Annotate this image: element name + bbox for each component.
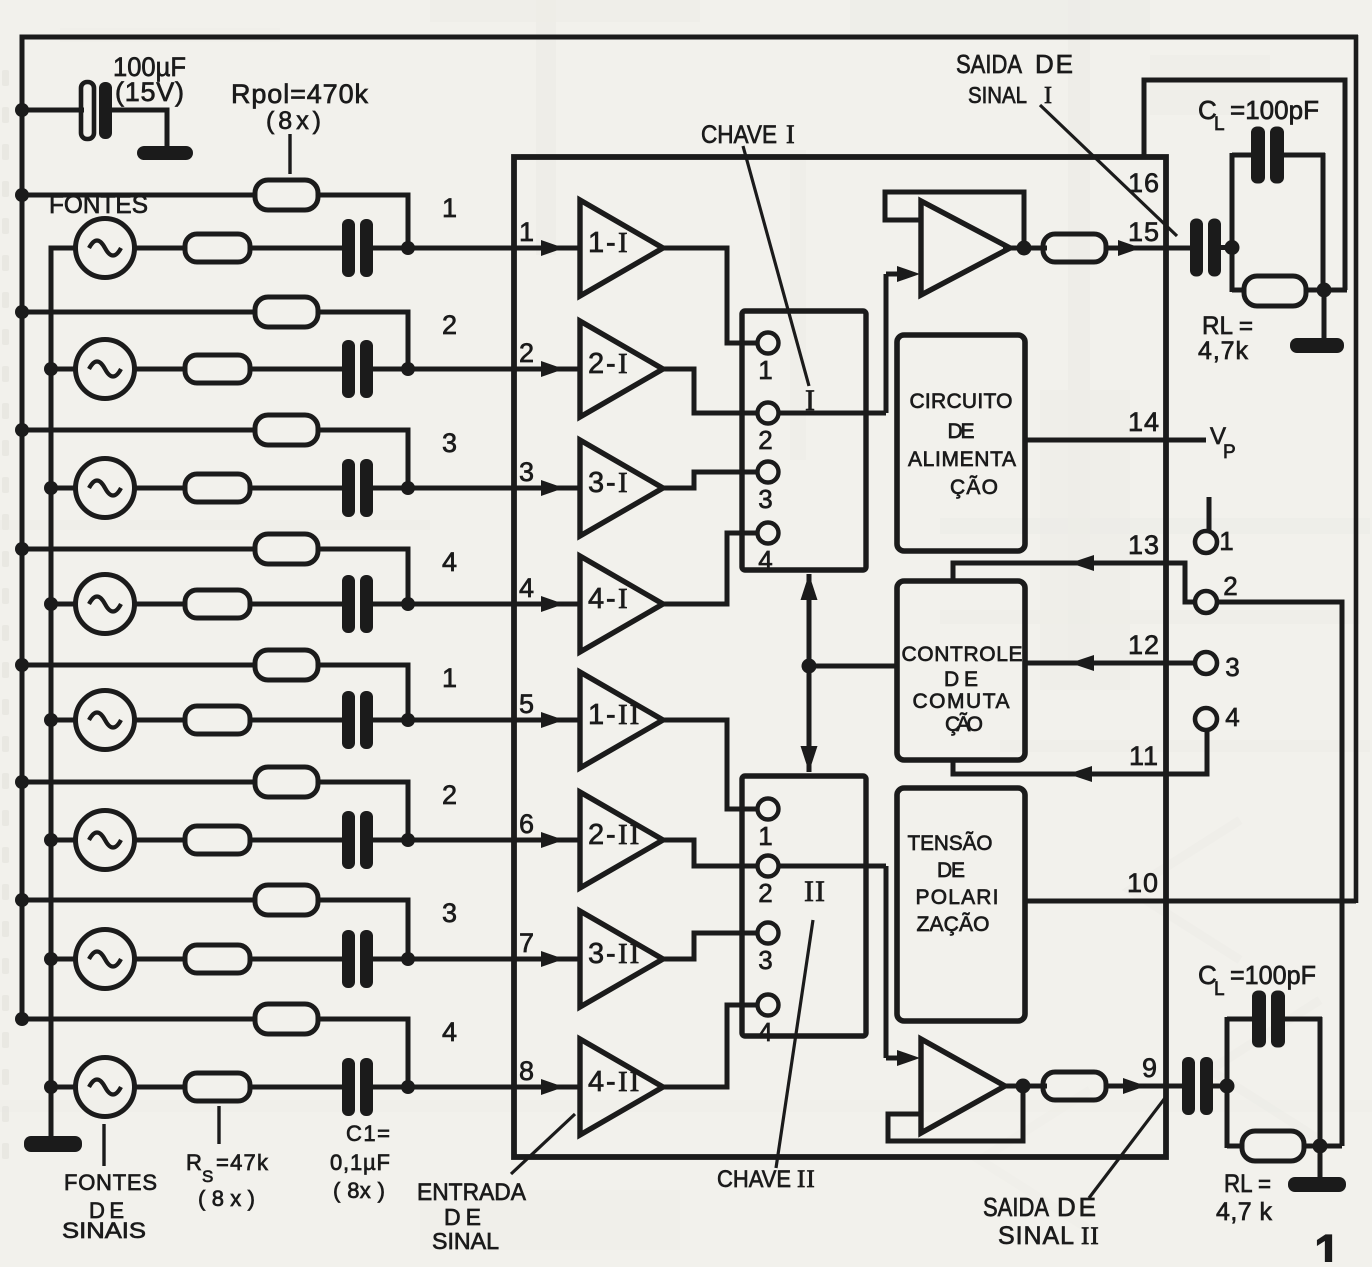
- svg-text:3: 3: [588, 467, 604, 499]
- label channel number 4: [442, 547, 458, 577]
- resistor Rs3 47k: [185, 474, 250, 502]
- label IC pin number 1: [519, 217, 535, 247]
- op-amp 4-II: [580, 1039, 663, 1135]
- switch I contact 3 circle: [758, 462, 779, 483]
- wire Rs6 to C1-6: [250, 838, 343, 843]
- svg-text:II: II: [618, 819, 641, 851]
- wire cap II to load node: [1213, 1084, 1231, 1089]
- svg-text:1: 1: [588, 699, 604, 731]
- switch I contact 1 circle: [758, 333, 779, 354]
- source G3 (AC signal source): [76, 459, 135, 518]
- source G6 (AC signal source): [76, 811, 135, 870]
- pointer FONTES DE SINAIS: [102, 1124, 105, 1166]
- wire C1-6 to IC pin 6: [373, 838, 582, 843]
- label C1=: [346, 1121, 390, 1146]
- label POLARI: [916, 886, 999, 909]
- source G1 (AC signal source): [76, 219, 135, 278]
- svg-text:-: -: [606, 583, 616, 615]
- label SAIDA DE (II): [983, 1192, 1096, 1222]
- label RL I: [1202, 312, 1253, 340]
- junction output II node: [1220, 1079, 1235, 1094]
- junction bus/source G4: [44, 597, 58, 611]
- pointer Rs label: [217, 1106, 220, 1144]
- capacitor CL II 100pF: [1252, 991, 1285, 1048]
- label figure number 1: [1314, 1226, 1341, 1267]
- label pin 16: [1128, 168, 1160, 198]
- wire load I bottom left: [1232, 288, 1246, 293]
- label channel number 2: [442, 780, 458, 810]
- svg-text:CONTROLE: CONTROLE: [902, 643, 1023, 666]
- wire Rpol4 to input node 4: [318, 549, 408, 604]
- label SINAL II: [998, 1222, 1100, 1250]
- svg-text:5: 5: [519, 689, 535, 719]
- wire amp 4-I output to switch I contact 4: [663, 533, 757, 604]
- junction V+ rail / Rpol6: [15, 775, 29, 789]
- svg-text:CHAVE: CHAVE: [717, 1166, 791, 1193]
- resistor RL II 4.7k: [1242, 1131, 1304, 1161]
- arrowhead into amp 3-II: [541, 951, 564, 967]
- label IC pin number 2: [519, 338, 535, 368]
- wire load II bottom left: [1227, 1144, 1244, 1149]
- svg-text:SINAL: SINAL: [432, 1228, 499, 1254]
- pointer ENTRADA DE SINAL: [511, 1114, 575, 1174]
- svg-text:2: 2: [588, 819, 604, 851]
- wire V+ rail to Rpol4: [22, 547, 256, 552]
- switch II contact 1 circle: [758, 799, 779, 820]
- svg-text:12: 12: [1128, 630, 1160, 660]
- label pin 15: [1128, 217, 1160, 247]
- pointer CHAVE I to switch I: [743, 146, 809, 386]
- label IC pin number 6: [519, 809, 535, 839]
- junction bus/source G8: [44, 1080, 58, 1094]
- op-amp 1-II: [580, 672, 663, 768]
- junction input node 3: [401, 481, 415, 495]
- junction bus/source G7: [44, 952, 58, 966]
- resistor Rs8 47k: [185, 1073, 250, 1101]
- capacitor C1-4 0.1uF: [342, 575, 373, 633]
- resistor Rpol3 470k: [255, 415, 318, 445]
- label external contact 2: [1223, 571, 1238, 601]
- label CL II: [1198, 960, 1316, 1000]
- label pin 11: [1129, 741, 1159, 771]
- label C1 (8x): [333, 1178, 385, 1203]
- label IC pin number 3: [519, 457, 535, 487]
- resistor buffer I output: [1043, 234, 1106, 262]
- pointer CHAVE II to switch II: [776, 920, 813, 1168]
- wire C1-4 to IC pin 4: [373, 602, 582, 607]
- svg-text:10: 10: [1127, 868, 1159, 898]
- svg-text:2: 2: [442, 780, 458, 810]
- svg-text:7: 7: [519, 928, 535, 958]
- svg-text:SAIDA: SAIDA: [956, 49, 1023, 79]
- svg-text:I: I: [786, 120, 795, 149]
- capacitor output coupling I: [1190, 219, 1221, 277]
- wire Rpol6 to input node 6: [318, 782, 408, 840]
- arrowhead pin 11 into IC: [1068, 766, 1092, 782]
- wire load II left leg: [1225, 1017, 1230, 1148]
- label external contact 3: [1225, 652, 1240, 682]
- svg-text:-: -: [606, 699, 616, 731]
- junction output I node: [1225, 240, 1240, 255]
- svg-text:-: -: [606, 467, 616, 499]
- junction input node 2: [401, 362, 415, 376]
- wire switch control bus: [807, 574, 812, 772]
- svg-text:RL =: RL =: [1224, 1170, 1271, 1198]
- svg-text:SINAIS: SINAIS: [62, 1218, 146, 1243]
- svg-text:2: 2: [588, 348, 604, 380]
- label SINAIS: [62, 1218, 146, 1243]
- svg-text:4: 4: [519, 573, 535, 603]
- svg-text:SINAL: SINAL: [998, 1222, 1074, 1250]
- arrowhead up into switch I: [801, 574, 818, 600]
- junction input node 6: [401, 833, 415, 847]
- resistor Rs2 47k: [185, 355, 250, 383]
- label channel number 3: [442, 428, 458, 458]
- wire pin 16 bootstrap loop: [1144, 80, 1345, 290]
- external contact 2 circle: [1195, 591, 1217, 613]
- switch II contact 4 circle: [758, 995, 779, 1016]
- label pin 14: [1128, 407, 1160, 437]
- svg-text:13: 13: [1128, 530, 1160, 560]
- label TENSAO: [908, 831, 993, 855]
- label C2 voltage (15V): [115, 77, 184, 107]
- wire C1-2 to IC pin 2: [373, 367, 582, 372]
- switch I contact 2 circle: [758, 403, 779, 424]
- svg-text:POLARI: POLARI: [916, 886, 999, 909]
- wire CL I to right leg: [1282, 153, 1325, 158]
- wire switch I common output: [779, 411, 887, 416]
- resistor Rs7 47k: [185, 945, 250, 973]
- wire amp 1-II output to switch II contact 1: [663, 720, 757, 809]
- label switch II contact number 1: [758, 821, 773, 851]
- arrowhead into buffer II: [886, 1050, 920, 1066]
- label C1 value 0,1uF: [330, 1150, 390, 1175]
- capacitor output coupling II: [1182, 1057, 1213, 1115]
- ground bus segment ch4: [49, 604, 54, 720]
- external contact 1 stem: [1207, 497, 1212, 531]
- wire G1 to Rs1: [134, 246, 186, 251]
- wire switch II common output: [779, 864, 887, 869]
- source G2 (AC signal source): [76, 340, 135, 399]
- svg-text:SAIDA: SAIDA: [983, 1192, 1050, 1222]
- label IC pin number 8: [519, 1056, 535, 1086]
- junction buffer I output node: [1017, 241, 1032, 256]
- label I inside switch I: [805, 384, 815, 417]
- svg-text:(15V): (15V): [115, 77, 184, 107]
- ground bus segment ch3: [49, 488, 54, 604]
- svg-text:9: 9: [1142, 1053, 1158, 1083]
- svg-text:4: 4: [442, 547, 458, 577]
- svg-text:-: -: [606, 819, 616, 851]
- ground for signal sources bus: [24, 1136, 82, 1152]
- svg-text:=100pF: =100pF: [1230, 960, 1316, 990]
- arrowhead into amp 4-I: [541, 596, 564, 612]
- svg-text:( 8x ): ( 8x ): [333, 1178, 385, 1203]
- label RL I value: [1198, 337, 1249, 365]
- pointer Rpol label to R1: [288, 134, 291, 174]
- capacitor C1-5 0.1uF: [342, 691, 373, 749]
- wire load II top to CL II: [1227, 1017, 1254, 1022]
- wire Rs7 to C1-7: [250, 957, 343, 962]
- label C2 value 100uF: [113, 52, 186, 82]
- label channel number 2: [442, 310, 458, 340]
- svg-text:4: 4: [758, 1017, 773, 1047]
- resistor Rpol4 470k: [255, 534, 318, 564]
- wire bus to source G8: [51, 1085, 78, 1090]
- external contact 4 circle: [1195, 708, 1217, 730]
- IC package outline (16-pin switch IC): [514, 157, 1166, 1157]
- label CAO (alimentacao): [950, 475, 998, 499]
- wire V+ rail to Rpol8: [22, 1017, 256, 1022]
- label Rpol (8x): [266, 107, 321, 135]
- svg-text:FONTES: FONTES: [64, 1170, 157, 1195]
- resistor buffer II output: [1043, 1072, 1106, 1100]
- ground for output I: [1290, 338, 1344, 353]
- wire G5 to Rs5: [134, 718, 186, 723]
- svg-text:6: 6: [519, 809, 535, 839]
- wire V+ rail to Rpol7: [22, 898, 256, 903]
- svg-text:2: 2: [758, 878, 773, 908]
- svg-text:1: 1: [519, 217, 535, 247]
- svg-text:4,7k: 4,7k: [1198, 337, 1249, 365]
- capacitor C1-1 0.1uF: [342, 219, 373, 277]
- wire rail to C2: [22, 108, 84, 113]
- wire cap I to load node: [1221, 245, 1236, 250]
- svg-text:3: 3: [588, 938, 604, 970]
- wire external contact 2 to output II load: [1217, 602, 1342, 1146]
- label FONTES: [49, 191, 148, 219]
- wire bus to source G4: [51, 602, 78, 607]
- block CONTROLE DE COMUTACAO: [897, 581, 1025, 760]
- junction load II ground node: [1313, 1139, 1328, 1154]
- wire load I left leg: [1230, 153, 1235, 292]
- capacitor C1-2 0.1uF: [342, 340, 373, 398]
- source G4 (AC signal source): [76, 575, 135, 634]
- wire amp 3-I output to switch I contact 3: [663, 472, 757, 488]
- ground for C2: [137, 146, 193, 160]
- svg-text:P: P: [1223, 442, 1237, 463]
- junction bus/source G6: [44, 833, 58, 847]
- label FONTES (bottom): [64, 1170, 157, 1195]
- junction bus/source G5: [44, 713, 58, 727]
- svg-text:4: 4: [442, 1017, 458, 1047]
- V+ top rail wire: [20, 35, 1359, 40]
- junction input node 4: [401, 597, 415, 611]
- op-amp 4-I: [580, 556, 663, 652]
- svg-text:I: I: [618, 467, 630, 499]
- svg-text:1: 1: [758, 821, 773, 851]
- op-amp 3-II: [580, 911, 663, 1007]
- wire pin 11 (CONTROLE to external contact 4): [953, 730, 1207, 774]
- svg-text:S: S: [202, 1167, 214, 1186]
- svg-text:I: I: [1044, 83, 1052, 109]
- svg-text:II: II: [797, 1166, 816, 1193]
- junction input node 8: [401, 1080, 415, 1094]
- arrowhead into buffer I: [886, 266, 920, 282]
- label CHAVE II: [717, 1166, 816, 1193]
- wire C1-7 to IC pin 7: [373, 957, 582, 962]
- source G7 (AC signal source): [76, 930, 135, 989]
- resistor Rpol2 470k: [255, 297, 318, 327]
- svg-text:3: 3: [758, 945, 773, 975]
- svg-text:ENTRADA: ENTRADA: [417, 1179, 526, 1206]
- label pin 10: [1127, 868, 1159, 898]
- label switch I contact number 3: [758, 484, 773, 514]
- wire C1-1 to IC pin 1: [373, 246, 582, 251]
- svg-text:3: 3: [442, 428, 458, 458]
- label DE (polarizacao): [937, 859, 965, 882]
- svg-text:2: 2: [519, 338, 535, 368]
- wire bus to source G6: [51, 838, 78, 843]
- svg-text:1: 1: [588, 227, 604, 259]
- junction bus/source G3: [44, 481, 58, 495]
- junction V+ rail / Rpol5: [15, 658, 29, 672]
- arrowhead pin 9: [1123, 1078, 1146, 1094]
- wire buffer II to pin 9: [1106, 1084, 1182, 1089]
- label switch II contact number 4: [758, 1017, 773, 1047]
- resistor Rs6 47k: [185, 826, 250, 854]
- svg-text:15: 15: [1128, 217, 1160, 247]
- wire switch II output down to buffer II: [884, 866, 889, 1058]
- svg-text:3: 3: [758, 484, 773, 514]
- wire load I right leg: [1321, 153, 1326, 290]
- label switch I contact number 4: [758, 545, 773, 575]
- junction V+ rail / Rpol2: [15, 305, 29, 319]
- wire buffer I to pin 15: [1106, 246, 1190, 251]
- svg-text:ALIMENTA: ALIMENTA: [908, 448, 1016, 471]
- label ZACAO: [917, 912, 990, 936]
- wire pin 10 (TENSAO to V+ rail): [1023, 899, 1356, 904]
- capacitor C1-7 0.1uF: [342, 930, 373, 988]
- wire C1-5 to IC pin 5: [373, 718, 582, 723]
- capacitor CL I 100pF: [1251, 127, 1284, 184]
- svg-text:4: 4: [758, 545, 773, 575]
- wire Rpol2 to input node 2: [318, 312, 408, 369]
- wire G6 to Rs6: [134, 838, 186, 843]
- svg-text:1: 1: [1219, 526, 1234, 556]
- svg-text:-: -: [606, 938, 616, 970]
- ground bus segment ch5: [49, 720, 54, 840]
- svg-text:DE: DE: [937, 859, 965, 882]
- svg-text:R: R: [186, 1150, 203, 1175]
- wire V+ rail to Rpol5: [22, 663, 256, 668]
- svg-text:II: II: [1081, 1223, 1100, 1250]
- wire bus to source G5: [51, 718, 78, 723]
- label Rs (8x): [198, 1186, 255, 1211]
- junction input node 1: [401, 241, 415, 255]
- wire V+ rail to Rpol3: [22, 428, 256, 433]
- arrowhead pin 13 into IC: [1070, 555, 1094, 571]
- wire pin 14 to Vp: [1025, 438, 1206, 443]
- wire Rs4 to C1-4: [250, 602, 343, 607]
- wire source G1 to ground bus: [51, 248, 78, 369]
- wire Rpol8 to input node 8: [318, 1019, 408, 1087]
- svg-text:L: L: [1214, 979, 1226, 1000]
- wire buffer I tip to resistor: [1003, 246, 1047, 251]
- svg-text:II: II: [618, 938, 641, 970]
- svg-text:0,1µF: 0,1µF: [330, 1150, 390, 1175]
- label RL II: [1224, 1170, 1271, 1198]
- wire amp 2-I output to switch I contact 2: [663, 369, 757, 413]
- svg-text:1: 1: [758, 355, 773, 385]
- label IC pin number 5: [519, 689, 535, 719]
- wire G4 to Rs4: [134, 602, 186, 607]
- junction input node 5: [401, 713, 415, 727]
- wire control bus to CONTROLE box: [809, 664, 898, 669]
- svg-text:3: 3: [1225, 652, 1240, 682]
- arrowhead into amp 3-I: [541, 480, 564, 496]
- label CHAVE I: [701, 120, 795, 149]
- label channel number 4: [442, 1017, 458, 1047]
- switch II contact 2 circle: [758, 856, 779, 877]
- svg-text:4: 4: [588, 1066, 604, 1098]
- svg-text:II: II: [804, 875, 826, 908]
- svg-text:=100pF: =100pF: [1230, 95, 1319, 125]
- switch CHAVE I box: [742, 311, 866, 570]
- wire pin 13 (CONTROLE to external contact 2): [953, 563, 1195, 602]
- block CIRCUITO DE ALIMENTACAO: [897, 335, 1025, 551]
- svg-text:II: II: [618, 1066, 641, 1098]
- arrowhead into amp 2-II: [541, 832, 564, 848]
- op-amp buffer II: [921, 1039, 1005, 1133]
- label switch I contact number 2: [758, 425, 773, 455]
- wire Rs2 to C1-2: [250, 367, 343, 372]
- op-amp buffer I: [921, 201, 1010, 295]
- wire G2 to Rs2: [134, 367, 186, 372]
- wire C1-3 to IC pin 3: [373, 486, 582, 491]
- svg-text:1: 1: [1314, 1226, 1341, 1262]
- junction load I ground node: [1317, 283, 1332, 298]
- label IC pin number 4: [519, 573, 535, 603]
- pointer SAIDA I to pin 15: [1040, 105, 1177, 236]
- junction V+ rail / Rpol1: [15, 188, 29, 202]
- pointer SAIDA II to pin 9: [1089, 1098, 1165, 1198]
- op-amp 1-I: [580, 200, 663, 296]
- wire Rpol1 to input node 1: [318, 195, 408, 248]
- resistor Rs5 47k: [185, 706, 250, 734]
- junction input node 7: [401, 952, 415, 966]
- label switch II contact number 3: [758, 945, 773, 975]
- capacitor C1-6 0.1uF: [342, 811, 373, 869]
- capacitor C1-3 0.1uF: [342, 459, 373, 517]
- svg-text:2: 2: [442, 310, 458, 340]
- svg-text:-: -: [606, 227, 616, 259]
- svg-text:II: II: [618, 699, 641, 731]
- label SINAL I: [968, 82, 1052, 109]
- svg-text:ÇÃO: ÇÃO: [945, 712, 983, 736]
- svg-text:14: 14: [1128, 407, 1160, 437]
- wire Rpol5 to input node 5: [318, 665, 408, 720]
- svg-text:3: 3: [519, 457, 535, 487]
- wire V+ rail to Rpol6: [22, 780, 256, 785]
- label CONTROLE: [902, 643, 1023, 666]
- svg-text:ÇÃO: ÇÃO: [950, 475, 998, 499]
- resistor Rpol1 470k: [255, 180, 318, 210]
- wire Rpol7 to input node 7: [318, 900, 408, 959]
- wire G8 to Rs8: [134, 1085, 186, 1090]
- label switch I contact number 1: [758, 355, 773, 385]
- resistor Rpol7 470k: [255, 885, 318, 915]
- label pin 13: [1128, 530, 1160, 560]
- label DE (comutacao): [944, 668, 978, 691]
- label switch II contact number 2: [758, 878, 773, 908]
- svg-text:I: I: [618, 583, 630, 615]
- ground bus segment ch7: [49, 959, 54, 1087]
- svg-text:I: I: [618, 348, 630, 380]
- capacitor C2 100uF (15V) electrolytic: [81, 82, 112, 139]
- svg-text:DE: DE: [948, 420, 975, 443]
- junction V+ rail / Rpol8: [15, 1012, 29, 1026]
